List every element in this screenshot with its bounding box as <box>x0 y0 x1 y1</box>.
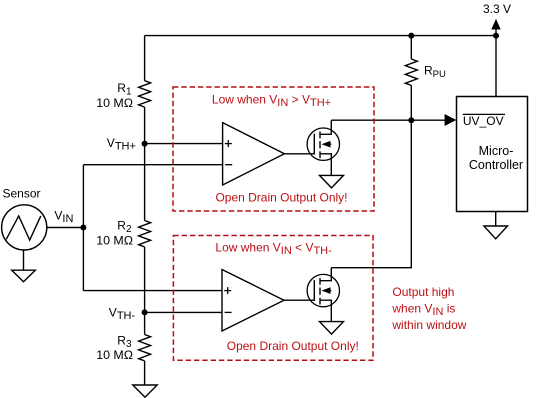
svg-text:10 MΩ: 10 MΩ <box>96 96 133 110</box>
svg-text:Sensor: Sensor <box>3 187 41 201</box>
wire VIN vertical bus <box>82 165 84 291</box>
ground below R3 <box>133 385 157 397</box>
resistor R2 <box>139 221 151 247</box>
wire VTH- to U2 inverting input <box>145 311 222 313</box>
comparator U1 <box>223 123 285 185</box>
microcontroller ground <box>484 212 508 239</box>
wire R2 to R3 (through VTH- node) <box>144 247 146 335</box>
node VTH- junction dot <box>142 309 148 315</box>
wire VIN to U1 inverting input <box>83 164 222 166</box>
wire VIN to U2 noninverting input <box>83 290 222 292</box>
wire R1 to R2 (through VTH+ node) <box>144 107 146 220</box>
node VIN junction dot <box>80 225 86 231</box>
label UV_OV with overline <box>463 114 505 128</box>
dashed annotation box 1 (upper comparator) <box>173 87 374 211</box>
resistor R1 <box>139 81 151 107</box>
wire open-drain node to microcontroller input <box>411 119 446 121</box>
resistor R3 <box>139 335 151 361</box>
red note: Output high when VIN is within window <box>391 285 466 332</box>
svg-text:10 MΩ: 10 MΩ <box>96 348 133 362</box>
label Micro-Controller <box>469 144 523 172</box>
node VTH+ junction dot <box>142 141 148 147</box>
sensor source circle <box>2 205 47 250</box>
dashed annotation box 2 (lower comparator) <box>173 236 373 361</box>
wire R3 to ground <box>144 361 146 385</box>
comparator U2 <box>222 270 284 332</box>
resistor RPU <box>405 36 417 121</box>
sensor ground <box>12 250 36 282</box>
svg-text:UV_OV: UV_OV <box>463 114 504 128</box>
svg-text:Open Drain Output Only!: Open Drain Output Only! <box>227 339 359 353</box>
transistor Q2 (NMOS) <box>307 268 339 322</box>
svg-text:Controller: Controller <box>469 158 523 172</box>
power 3.3V symbol <box>491 19 500 36</box>
junction dot rail/RPU <box>408 33 414 39</box>
svg-text:Open Drain Output Only!: Open Drain Output Only! <box>215 190 347 204</box>
wire U2 output to Q2 gate <box>284 299 314 301</box>
wire sensor output to VIN node <box>47 227 84 229</box>
svg-text:3.3 V: 3.3 V <box>483 2 511 16</box>
wire top rail 3.3V <box>145 35 496 37</box>
ground below Q1 <box>320 175 344 188</box>
wire Q1 drain to pull-up junction <box>331 119 411 121</box>
transistor Q1 (NMOS) <box>307 120 339 175</box>
wire U1 output to Q1 gate <box>284 153 314 155</box>
svg-text:10 MΩ: 10 MΩ <box>96 234 133 248</box>
wire Q2 drain to pull-up junction <box>331 120 411 268</box>
svg-text:Micro-: Micro- <box>479 144 514 158</box>
wire VDD to microcontroller <box>495 36 497 97</box>
wire divider top segment <box>144 36 146 81</box>
wire VTH+ to U1 noninverting input <box>145 143 223 145</box>
svg-text:Output high: Output high <box>392 285 454 299</box>
junction dot open-drain node <box>408 117 414 123</box>
arrow into UV_OV pin <box>445 114 457 126</box>
ground below Q2 <box>320 322 344 335</box>
svg-text:within window: within window <box>391 318 466 332</box>
junction dot rail/VDD <box>493 33 499 39</box>
microcontroller U3 box <box>457 97 528 212</box>
